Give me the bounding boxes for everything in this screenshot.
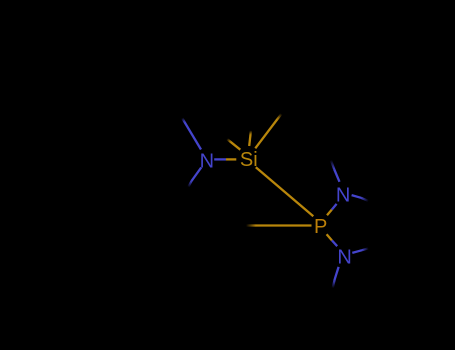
- svg-text:N: N: [200, 150, 214, 172]
- wire P-N2 bond (gold half): [327, 210, 332, 216]
- wire P-N2 bond (blue half): [332, 204, 337, 210]
- wire N1 to C (up-left), fading to carbon: [185, 122, 202, 150]
- wire P-N3 bond (blue half): [332, 240, 337, 246]
- wire N2 to ring C, fading to carbon: [352, 195, 361, 198]
- wire N2 methyl (up), fading to carbon: [334, 170, 339, 182]
- svg-text:N: N: [337, 246, 351, 268]
- svg-text:N: N: [336, 184, 350, 206]
- svg-text:P: P: [314, 216, 327, 238]
- wire N1-Si bond (gold half): [226, 158, 236, 160]
- wire Si methyl up stub: [249, 135, 250, 147]
- wire Si-P bond: [256, 167, 313, 216]
- wire Si methyl up-left stub: [231, 142, 241, 150]
- wire N3 methyl (down), fading to carbon: [334, 267, 338, 280]
- wire P methyl (left), fading to carbon: [256, 224, 312, 226]
- wire N1-Si bond (blue half): [214, 158, 226, 160]
- wire N3 to ring C, fading to carbon: [352, 250, 362, 253]
- svg-text:Si: Si: [240, 149, 258, 171]
- wire N1 to C (down-left), fading to carbon: [192, 168, 202, 182]
- wire Si methyl up-right: [255, 119, 277, 148]
- wire P-N3 bond (gold half): [327, 234, 332, 240]
